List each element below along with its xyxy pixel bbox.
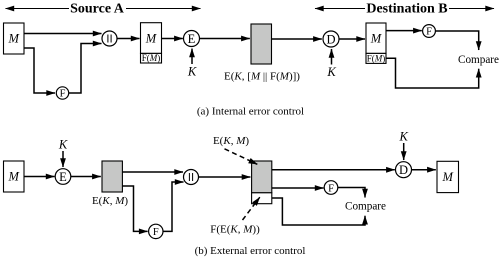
svg-text:Source A: Source A <box>70 2 125 17</box>
svg-text:D: D <box>326 33 335 47</box>
wire F2 down to Compare <box>435 31 478 50</box>
dashed arrow to gray part <box>225 149 258 165</box>
function F4 circle <box>324 181 338 195</box>
function F1 circle <box>56 87 68 99</box>
box M4 (source message b) <box>4 161 25 192</box>
dashed arrow to white part <box>243 197 260 220</box>
header Destination B double arrow <box>315 8 494 10</box>
box M1 (source message) <box>4 23 25 54</box>
box M5 (destination message b) <box>437 161 459 192</box>
svg-text:F: F <box>60 89 66 100</box>
svg-text:M: M <box>145 32 157 46</box>
wire D1 to box M3 <box>339 38 365 40</box>
svg-text:K: K <box>58 138 68 152</box>
wire M1 to concat input 1 <box>24 33 102 35</box>
wire M4 to E2 <box>24 176 55 178</box>
wire F3 to concat2 input 2 <box>163 182 184 231</box>
wire concat1 to box M2 <box>117 38 140 40</box>
svg-text:F: F <box>426 27 432 38</box>
svg-text:D: D <box>399 163 408 177</box>
encrypt E2 circle <box>55 169 71 185</box>
svg-text:M: M <box>7 170 19 184</box>
key K1 arrow into E1 <box>191 49 193 64</box>
svg-text:Destination B: Destination B <box>366 2 447 17</box>
ciphertext gray box 1 <box>251 24 272 64</box>
svg-text:M: M <box>7 32 19 46</box>
svg-text:E(K, M): E(K, M) <box>92 195 128 207</box>
encrypt E1 circle <box>184 31 200 47</box>
svg-text:(b) External error control: (b) External error control <box>195 245 306 257</box>
big box gray part E(K,M) <box>252 161 272 193</box>
decrypt D1 circle <box>323 31 339 47</box>
svg-text:E(K, M): E(K, M) <box>213 135 249 147</box>
svg-text:K: K <box>187 65 197 79</box>
wire E1 to ciphertext box <box>200 38 250 40</box>
svg-text:F: F <box>328 183 334 194</box>
svg-text:(a) Internal error control: (a) Internal error control <box>197 106 304 118</box>
function F3 circle <box>149 224 163 238</box>
concat circle 2 (||) <box>184 170 199 185</box>
wire concat2 to big box <box>199 176 251 178</box>
wire E2 to graybox2 <box>71 176 101 178</box>
box M2 with F(M) field <box>141 23 162 54</box>
svg-text:F(M): F(M) <box>142 53 161 63</box>
ciphertext gray box 2 <box>102 161 122 192</box>
big box white part F(E(K,M)) <box>252 193 272 204</box>
wire graybox2 to concat2 input 1 <box>122 171 183 173</box>
svg-text:M: M <box>441 170 453 184</box>
wire F4 down to Compare (b) <box>338 188 365 198</box>
svg-text:E(K, [M || F(M)]): E(K, [M || F(M)]) <box>224 71 300 83</box>
wire M1 to F1 <box>24 48 55 93</box>
wire whitebox to Compare (b) bottom <box>272 198 365 225</box>
key K4 arrow into D2 <box>403 143 405 160</box>
wire M3 to F2 <box>386 30 422 32</box>
decrypt D2 circle <box>396 162 412 178</box>
svg-text:F(M): F(M) <box>367 53 386 63</box>
wire F1 to concat input 2 <box>69 44 102 94</box>
svg-text:Compare: Compare <box>345 201 386 213</box>
wire graybox2 to F3 <box>122 186 147 231</box>
box M3 with F(M) field <box>366 23 386 53</box>
key K3 arrow into E2 <box>62 151 64 167</box>
svg-text:M: M <box>370 32 382 46</box>
concat circle 1 (||) <box>102 31 117 46</box>
svg-text:F: F <box>153 227 159 238</box>
wire F(M)3 to Compare bottom <box>386 58 479 88</box>
svg-text:Compare: Compare <box>458 54 499 66</box>
wire bigbox to D2 <box>272 169 395 171</box>
wire D2 to box M5 <box>412 169 436 171</box>
svg-text:F(E(K, M)): F(E(K, M)) <box>210 224 260 236</box>
wire M2 to E1 <box>162 38 183 40</box>
svg-text:K: K <box>326 65 336 79</box>
svg-text:E: E <box>59 170 67 184</box>
header Source A double arrow <box>6 8 201 10</box>
key K2 arrow into D1 <box>331 49 333 65</box>
function F2 circle <box>423 25 436 38</box>
svg-text:K: K <box>399 130 409 144</box>
wire bigbox to F4 <box>272 187 324 189</box>
svg-text:E: E <box>188 32 196 46</box>
wire graybox1 to D1 <box>272 38 322 40</box>
